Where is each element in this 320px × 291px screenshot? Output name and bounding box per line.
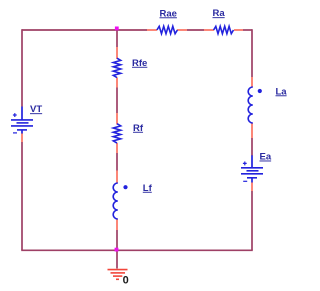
svg-text:Rfe: Rfe: [132, 58, 147, 69]
wire left side upper: [21, 29, 23, 106]
pin Ea bottom: [251, 183, 253, 192]
battery VT plate 4: [17, 129, 27, 131]
battery Ea plate 2: [247, 170, 259, 172]
pin Ra right: [234, 29, 243, 31]
svg-text:Rf: Rf: [133, 123, 144, 134]
svg-text:Rae: Rae: [160, 8, 177, 19]
pin La top: [251, 77, 253, 87]
inductor Lf: [113, 183, 118, 219]
svg-text:0: 0: [123, 275, 129, 287]
inductor La: [248, 87, 253, 123]
wire right side middle: [251, 138, 253, 156]
battery Ea minus sign: [243, 180, 247, 182]
wire left side lower: [21, 142, 23, 250]
battery Ea plus sign: [243, 162, 247, 166]
battery VT lead top: [21, 107, 23, 120]
resistor Ra: [214, 26, 234, 33]
pin Rf bottom: [116, 143, 118, 153]
pin Rfe top: [116, 47, 118, 59]
ground symbol line 4: [116, 278, 119, 280]
junction dot bottom (node 0): [115, 248, 119, 252]
pin Lf bottom: [116, 219, 118, 230]
pin La bottom: [251, 123, 253, 138]
svg-text:VT: VT: [30, 104, 42, 115]
pin Rae right: [177, 29, 187, 31]
ground symbol line 2: [111, 272, 126, 274]
battery VT minus sign: [13, 132, 17, 134]
svg-text:Ra: Ra: [213, 8, 226, 19]
resistor Rfe: [113, 58, 120, 77]
resistor Rf: [113, 124, 120, 143]
svg-text:Ea: Ea: [260, 152, 272, 163]
pin Rf top: [116, 113, 118, 125]
resistor Rae: [157, 26, 178, 33]
battery Ea plate 4: [247, 177, 257, 179]
wire Ra to top-right corner: [243, 29, 252, 31]
pin Lf top: [116, 171, 118, 184]
battery VT plate 1: [11, 119, 33, 121]
junction dot top (node between VT, Rfe, Rae): [115, 27, 119, 31]
battery VT plate 3: [11, 125, 33, 127]
battery Ea lead bottom: [251, 178, 253, 183]
pin Ra left: [204, 29, 214, 31]
battery Ea lead top: [251, 155, 253, 167]
wire middle branch segment 2: [116, 88, 118, 114]
phase dot Lf: [123, 185, 127, 189]
wire right side upper: [251, 29, 253, 77]
battery Ea plate 1: [241, 167, 263, 169]
wire middle branch segment 1: [116, 30, 118, 47]
pin VT bottom: [21, 133, 23, 142]
svg-text:La: La: [276, 86, 288, 97]
battery VT plate 2: [17, 122, 29, 124]
wire middle branch segment 4: [116, 230, 118, 250]
battery Ea plate 3: [241, 173, 263, 175]
wire top-left horizontal: [22, 29, 147, 31]
svg-text:Lf: Lf: [143, 183, 153, 194]
wire ground stub: [116, 250, 118, 269]
pin Rae left: [147, 29, 157, 31]
phase dot La: [258, 89, 262, 93]
battery VT lead bottom: [21, 130, 23, 134]
ground symbol line 1: [108, 269, 128, 271]
wire right side lower: [251, 191, 253, 250]
wire between Rae and Ra: [187, 29, 204, 31]
pin Rfe bottom: [116, 78, 118, 88]
wire middle branch segment 3: [116, 153, 118, 171]
wire bottom: [21, 249, 253, 251]
ground symbol line 3: [113, 275, 122, 277]
battery VT plus sign: [13, 113, 17, 117]
